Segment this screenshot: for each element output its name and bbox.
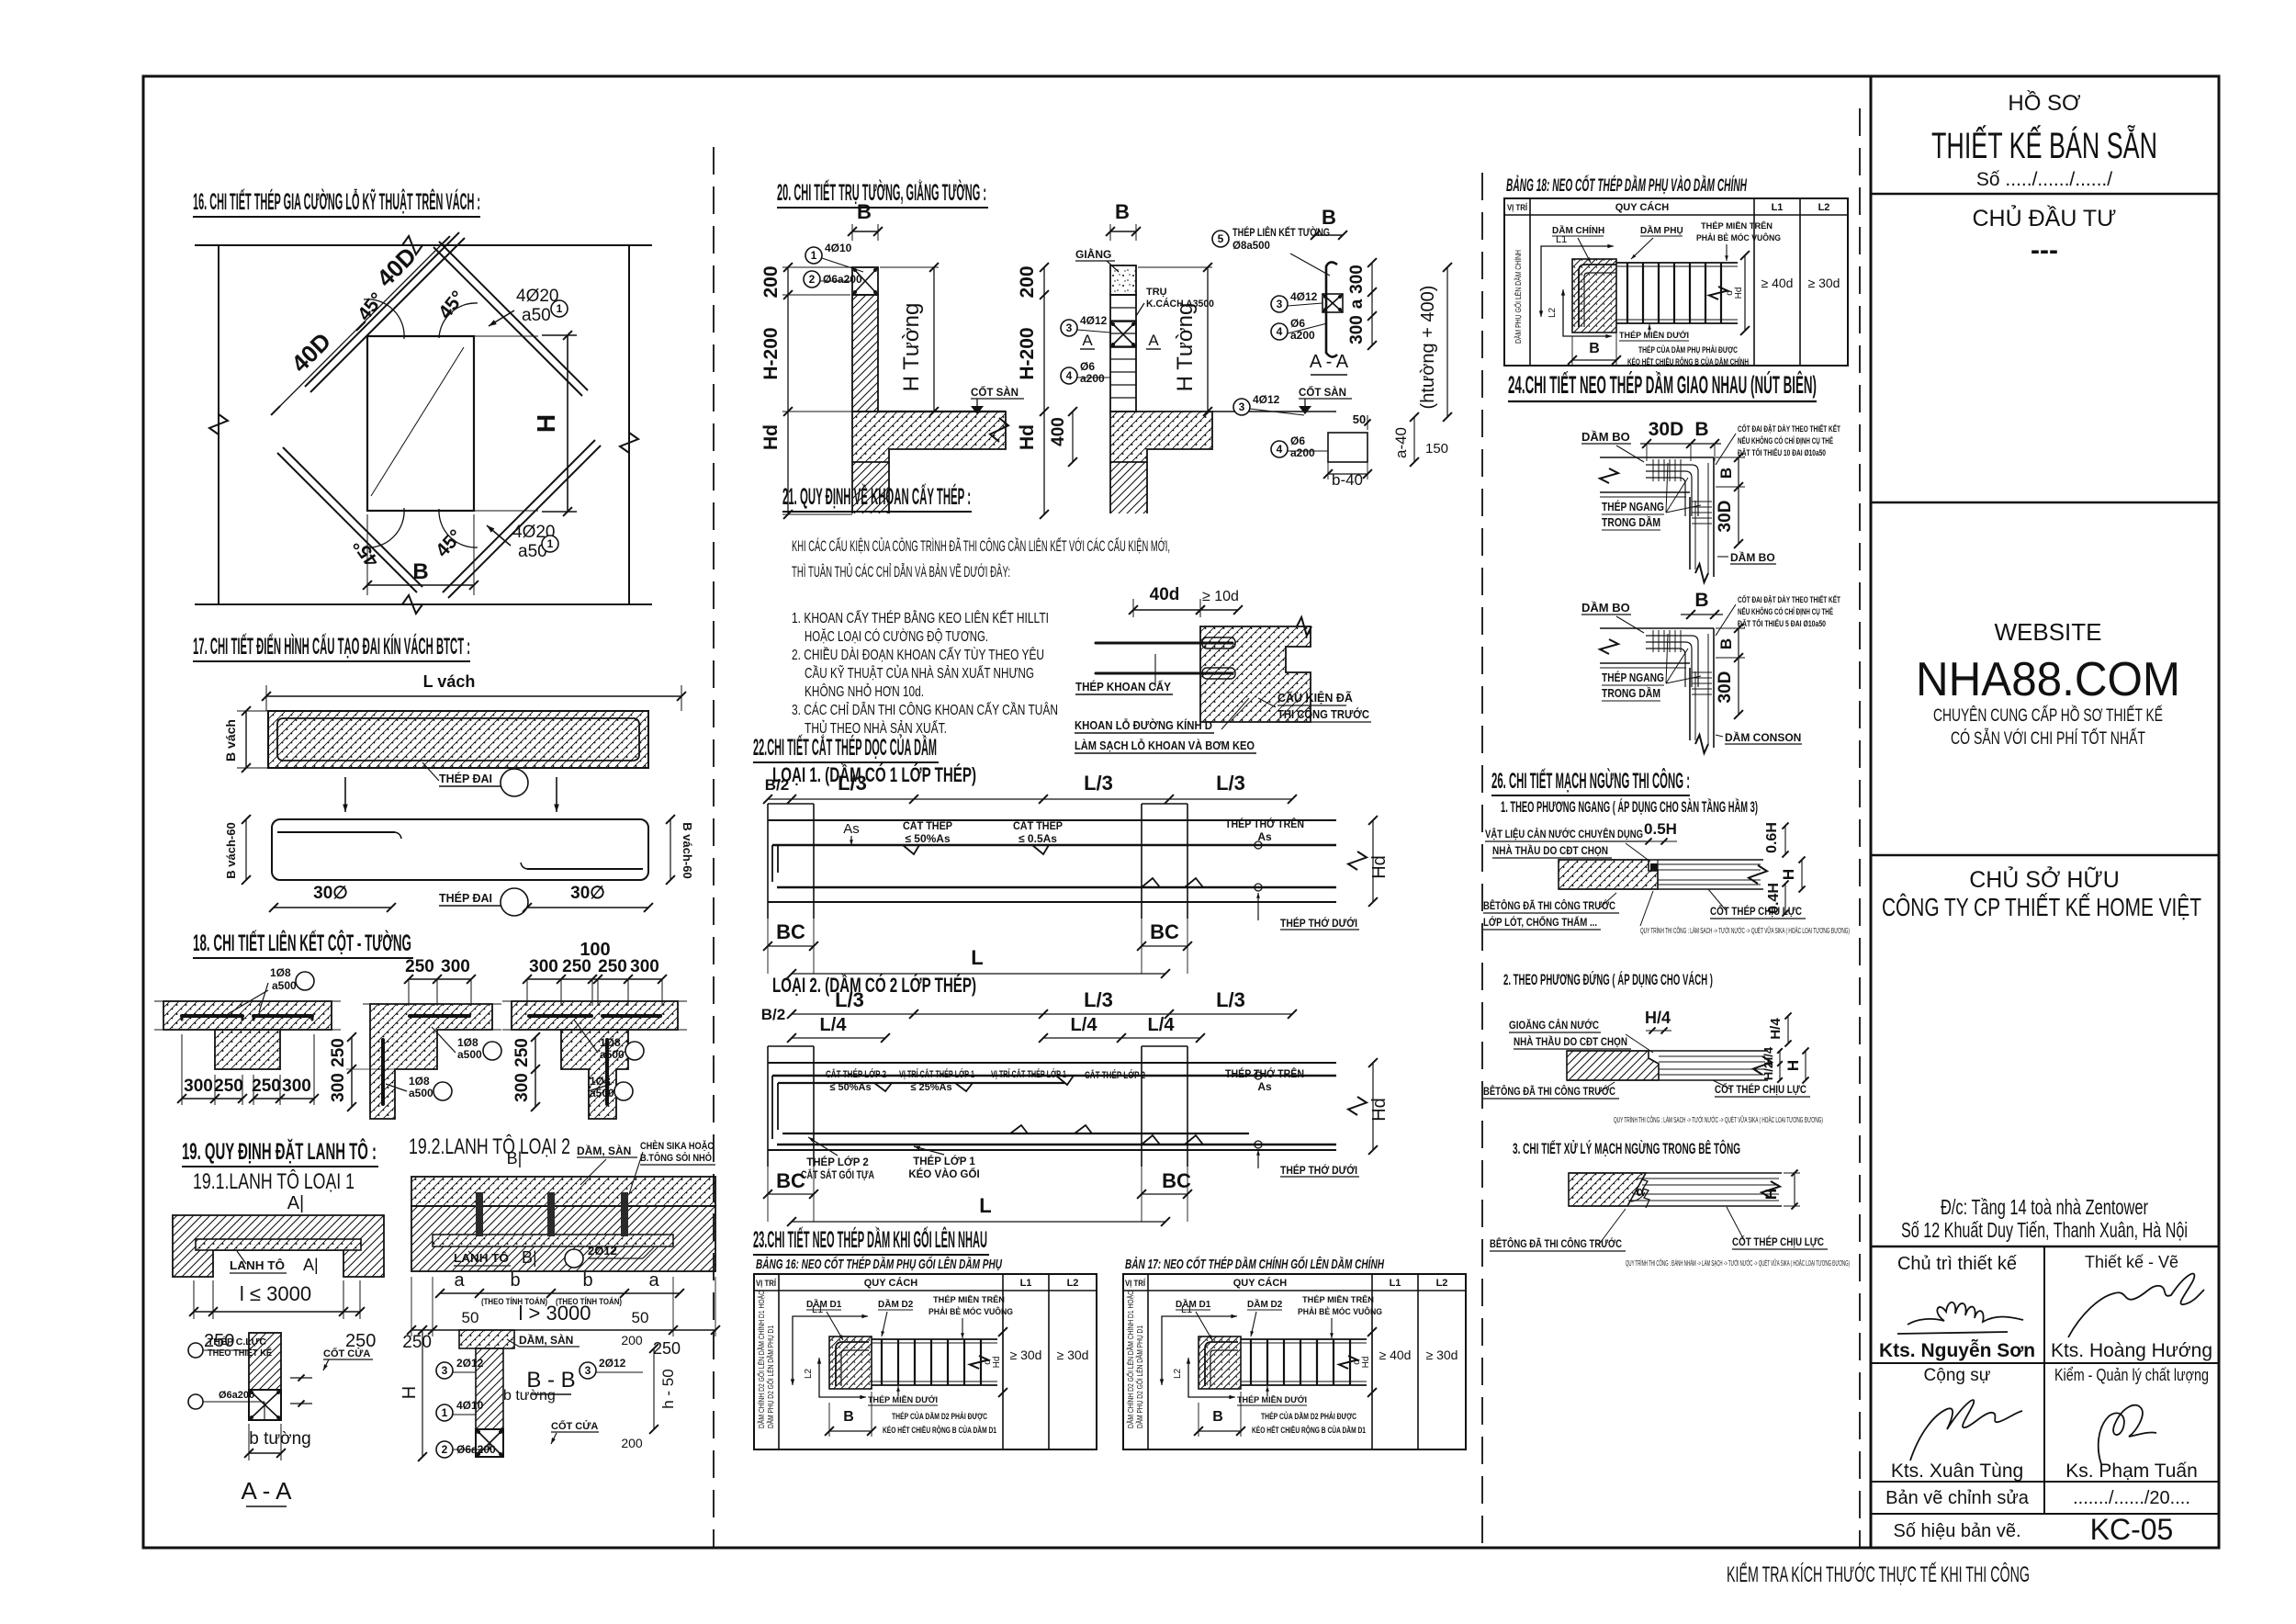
- svg-text:a500: a500: [600, 1048, 625, 1061]
- svg-text:A|: A|: [287, 1193, 305, 1213]
- svg-text:BC: BC: [1162, 1169, 1191, 1192]
- svg-text:200: 200: [1017, 265, 1038, 298]
- svg-text:250: 250: [405, 957, 434, 976]
- svg-text:As: As: [1257, 1080, 1272, 1093]
- svg-text:20. CHI TIẾT TRỤ TƯỜNG, GIẰNG: 20. CHI TIẾT TRỤ TƯỜNG, GIẰNG TƯỜNG :: [777, 178, 986, 206]
- fig26.2 wall section: [1567, 1051, 1659, 1080]
- fig19.2 wall with lintel: [411, 1206, 715, 1271]
- svg-text:b: b: [510, 1270, 520, 1291]
- svg-text:NHÀ THẦU DO CĐT CHỌN: NHÀ THẦU DO CĐT CHỌN: [1492, 843, 1608, 857]
- svg-text:19.2.LANH TÔ LOẠI 2: 19.2.LANH TÔ LOẠI 2: [409, 1133, 570, 1159]
- svg-text:250: 250: [329, 1038, 348, 1067]
- fig20b callout 3 4O12: [1061, 320, 1077, 336]
- svg-text:A: A: [1082, 332, 1093, 349]
- svg-text:L2: L2: [1818, 202, 1830, 213]
- svg-text:L vách: L vách: [423, 672, 476, 691]
- svg-text:L1: L1: [1556, 234, 1567, 245]
- svg-text:30D: 30D: [1649, 419, 1684, 440]
- svg-text:1Ø8: 1Ø8: [600, 1036, 621, 1049]
- svg-text:50: 50: [632, 1309, 649, 1326]
- svg-text:B|: B|: [522, 1248, 537, 1267]
- title block row lines: [1871, 193, 2219, 196]
- svg-text:H: H: [1780, 869, 1797, 880]
- svg-text:B|: B|: [507, 1149, 523, 1167]
- svg-text:L/3: L/3: [1216, 988, 1245, 1011]
- svg-text:23.CHI TIẾT NEO THÉP DẦM KHI G: 23.CHI TIẾT NEO THÉP DẦM KHI GỐI LÊN NHA…: [753, 1225, 987, 1253]
- svg-text:......./....../20....: ......./....../20....: [2073, 1488, 2190, 1508]
- svg-text:300: 300: [1347, 315, 1367, 344]
- svg-text:BÊTÔNG ĐÃ THI CÔNG TRƯỚC: BÊTÔNG ĐÃ THI CÔNG TRƯỚC: [1490, 1236, 1622, 1250]
- svg-text:50: 50: [462, 1309, 479, 1326]
- svg-text:40d: 40d: [1150, 585, 1180, 604]
- svg-text:H-200: H-200: [760, 327, 782, 379]
- svg-text:HỒ SƠ: HỒ SƠ: [2008, 90, 2081, 116]
- fig18b rebar bars: [410, 1014, 469, 1018]
- svg-text:B: B: [843, 1409, 854, 1425]
- svg-text:THÉP MIỀN TRÊN: THÉP MIỀN TRÊN: [1701, 220, 1773, 231]
- svg-text:19.1.LANH TÔ LOẠI 1: 19.1.LANH TÔ LOẠI 1: [193, 1168, 355, 1194]
- svg-text:17. CHI TIẾT ĐIỂN HÌNH CẤU TẠO: 17. CHI TIẾT ĐIỂN HÌNH CẤU TẠO ĐAI KÍN V…: [193, 633, 470, 660]
- svg-text:250: 250: [653, 1339, 681, 1358]
- svg-text:NHA88.COM: NHA88.COM: [1916, 653, 2180, 706]
- table outline: [1123, 1274, 1466, 1449]
- svg-text:a200: a200: [1290, 446, 1315, 459]
- svg-text:QUY TRÌNH THI CÔNG : ĐÁNH NHÁM: QUY TRÌNH THI CÔNG : ĐÁNH NHÁM -> LÀM SẠ…: [1626, 1258, 1850, 1268]
- svg-text:H: H: [1784, 1060, 1802, 1071]
- svg-text:1Ø8: 1Ø8: [270, 966, 291, 979]
- svg-text:Kiểm - Quản lý chất lượng: Kiểm - Quản lý chất lượng: [2054, 1366, 2209, 1384]
- svg-text:Bản vẽ chỉnh sửa: Bản vẽ chỉnh sửa: [1885, 1488, 2030, 1508]
- fig18c wall below: [561, 1030, 628, 1119]
- svg-text:HOẶC LOẠI CÓ CƯỜNG ĐỘ TƯƠNG.: HOẶC LOẠI CÓ CƯỜNG ĐỘ TƯƠNG.: [805, 627, 988, 645]
- svg-text:200: 200: [621, 1436, 643, 1450]
- svg-text:BẢN 17: NEO CỐT THÉP DẦM CHÍNH: BẢN 17: NEO CỐT THÉP DẦM CHÍNH GỐI LÊN D…: [1125, 1256, 1385, 1272]
- svg-text:CẤU KIỆN ĐÃ: CẤU KIỆN ĐÃ: [1277, 691, 1353, 705]
- svg-text:3: 3: [442, 1364, 448, 1377]
- svg-text:THI CÔNG TRƯỚC: THI CÔNG TRƯỚC: [1277, 707, 1369, 721]
- svg-text:KHOAN LỖ ĐƯỜNG KÍNH D: KHOAN LỖ ĐƯỜNG KÍNH D: [1075, 718, 1212, 732]
- svg-text:2Ø12: 2Ø12: [599, 1357, 626, 1370]
- beam1 top rebar: [772, 844, 1336, 846]
- fig20b callout 4 O6 a200: [1061, 367, 1077, 384]
- fig24 corner rebar hooks: [1646, 636, 1698, 687]
- svg-text:L1: L1: [812, 1304, 823, 1315]
- svg-text:CẮT THÉP LỚP 2: CẮT THÉP LỚP 2: [826, 1068, 886, 1080]
- svg-text:VỊ TRÍ: VỊ TRÍ: [756, 1279, 776, 1289]
- svg-text:H: H: [532, 414, 560, 433]
- svg-text:A|: A|: [303, 1256, 319, 1274]
- svg-text:a500: a500: [409, 1087, 433, 1100]
- svg-text:BẢNG 18: NEO CỐT THÉP DẦM PHỤ: BẢNG 18: NEO CỐT THÉP DẦM PHỤ VÀO DẦM CH…: [1506, 175, 1748, 196]
- beam2 top rebar layers: [772, 1075, 1336, 1077]
- svg-text:1: 1: [557, 302, 563, 315]
- svg-text:B: B: [412, 559, 428, 584]
- svg-text:VỊ TRÍ CẮT THÉP LỚP 1: VỊ TRÍ CẮT THÉP LỚP 1: [991, 1068, 1066, 1080]
- svg-text:B.TÔNG SỎI NHỎ: B.TÔNG SỎI NHỎ: [640, 1152, 712, 1164]
- table L1 bent leader: [1162, 1316, 1236, 1384]
- svg-text:Hd: Hd: [1361, 1357, 1371, 1369]
- svg-text:A - A: A - A: [242, 1477, 293, 1505]
- signature 4 squiggle: [2099, 1405, 2156, 1464]
- svg-text:CỐT SÀN: CỐT SÀN: [971, 386, 1019, 399]
- svg-text:KÉO VÀO GỐI: KÉO VÀO GỐI: [908, 1167, 979, 1180]
- svg-text:250: 250: [214, 1077, 243, 1096]
- svg-text:200: 200: [621, 1333, 643, 1348]
- svg-text:VẬT LIỆU CẢN NƯỚC CHUYÊN DỤNG: VẬT LIỆU CẢN NƯỚC CHUYÊN DỤNG: [1485, 827, 1643, 840]
- fig20c small rect detail: [1328, 433, 1367, 462]
- svg-text:3: 3: [1066, 321, 1073, 334]
- fig16 wall bottom edge: [195, 603, 652, 605]
- svg-text:CÓ SẴN VỚI CHI PHÍ TỐT NHẤT: CÓ SẴN VỚI CHI PHÍ TỐT NHẤT: [1951, 728, 2145, 749]
- svg-text:300: 300: [441, 957, 470, 976]
- beam2 outline: [768, 1062, 1336, 1064]
- svg-text:l ≤ 3000: l ≤ 3000: [240, 1282, 311, 1305]
- svg-text:THÉP MIỀN TRÊN: THÉP MIỀN TRÊN: [933, 1294, 1005, 1305]
- fig20c callout 5 thep lien ket tuong: [1212, 231, 1229, 247]
- svg-text:THÉP ĐAI: THÉP ĐAI: [439, 772, 492, 785]
- svg-text:B: B: [1115, 200, 1130, 223]
- fig16 wall top edge: [195, 244, 652, 246]
- svg-text:THÉP LIÊN KẾT TƯỜNG: THÉP LIÊN KẾT TƯỜNG: [1232, 227, 1330, 239]
- svg-text:a: a: [1347, 299, 1367, 309]
- table beam D2 side view: [872, 1338, 997, 1340]
- svg-text:b tường: b tường: [503, 1388, 556, 1404]
- svg-text:4Ø12: 4Ø12: [1080, 314, 1108, 327]
- fig20a callout 2 O6a200: [804, 271, 820, 288]
- svg-text:CỐT CỬA: CỐT CỬA: [323, 1347, 370, 1359]
- svg-text:L2: L2: [1173, 1368, 1183, 1379]
- separator dashed line right|titleblock: [1859, 108, 1861, 1547]
- table beam D2 side view: [1241, 1338, 1367, 1340]
- svg-text:Ø6: Ø6: [1290, 434, 1305, 447]
- svg-text:B: B: [1717, 638, 1735, 649]
- svg-text:H/4: H/4: [1645, 1009, 1671, 1027]
- svg-text:L1: L1: [1772, 202, 1784, 213]
- svg-text:B vách-60: B vách-60: [224, 822, 238, 878]
- fig26.1 new slab rebar: [1559, 859, 1763, 861]
- svg-text:BÊTÔNG ĐÃ THI CÔNG TRƯỚC: BÊTÔNG ĐÃ THI CÔNG TRƯỚC: [1483, 898, 1615, 912]
- title block border: [1871, 76, 2219, 1548]
- svg-text:250: 250: [402, 1333, 432, 1352]
- svg-text:THÉP LỚP 2: THÉP LỚP 2: [806, 1156, 869, 1168]
- fig20b wall ladder: [1110, 295, 1136, 412]
- svg-text:L/4: L/4: [1148, 1015, 1176, 1035]
- svg-text:DẦM PHỤ: DẦM PHỤ: [1640, 224, 1683, 236]
- svg-text:L1: L1: [1020, 1278, 1032, 1289]
- svg-text:300: 300: [329, 1073, 348, 1102]
- svg-text:CHỦ SỞ HỮU: CHỦ SỞ HỮU: [1969, 865, 2120, 893]
- signature 1 squiggle: [1908, 1303, 2023, 1325]
- svg-text:300: 300: [282, 1077, 311, 1096]
- svg-text:B: B: [1212, 1409, 1223, 1425]
- svg-text:DẦM CHÍNH D2 GỐI LÊN DẦM CHÍNH: DẦM CHÍNH D2 GỐI LÊN DẦM CHÍNH D1 HOẶC: [757, 1291, 766, 1428]
- table outline: [754, 1274, 1097, 1449]
- svg-text:KÉO HẾT CHIỀU RỘNG B CỦA DẦM D: KÉO HẾT CHIỀU RỘNG B CỦA DẦM D1: [1252, 1425, 1366, 1436]
- svg-text:QUY TRÌNH THI CÔNG : LÀM SẠCH: QUY TRÌNH THI CÔNG : LÀM SẠCH -> TƯỚI NƯ…: [1614, 1115, 1823, 1124]
- fig24 leader fan: [1666, 463, 1668, 513]
- fig16 opening rectangle: [367, 336, 474, 511]
- svg-text:Hd: Hd: [1369, 855, 1390, 879]
- separator dashed line left|middle: [713, 147, 715, 1547]
- svg-text:1: 1: [442, 1406, 448, 1419]
- svg-text:DẦM CONSON: DẦM CONSON: [1725, 730, 1801, 744]
- svg-text:L: L: [979, 1194, 991, 1217]
- svg-text:BÊTÔNG ĐÃ THI CÔNG TRƯỚC: BÊTÔNG ĐÃ THI CÔNG TRƯỚC: [1483, 1084, 1615, 1098]
- svg-text:2Ø12: 2Ø12: [456, 1357, 484, 1370]
- svg-text:2Ø12: 2Ø12: [588, 1244, 617, 1257]
- fig24 B 30D right dims: [1738, 628, 1739, 715]
- svg-text:GIOĂNG CẢN NƯỚC: GIOĂNG CẢN NƯỚC: [1509, 1018, 1599, 1032]
- svg-text:LANH TÔ: LANH TÔ: [454, 1251, 509, 1265]
- beam1 top dim row: [768, 798, 1292, 800]
- svg-text:Hd: Hd: [1017, 424, 1038, 450]
- table bang 18: [1504, 198, 1848, 366]
- table L1 bent leader: [793, 1316, 867, 1384]
- svg-text:CỐT CỬA: CỐT CỬA: [551, 1419, 598, 1432]
- svg-text:THÉP MIỀN DƯỚI: THÉP MIỀN DƯỚI: [868, 1394, 938, 1405]
- beam1 cut marks: [903, 845, 919, 854]
- svg-text:Ks. Phạm Tuấn: Ks. Phạm Tuấn: [2065, 1460, 2198, 1482]
- svg-text:≥ 30d: ≥ 30d: [1426, 1348, 1458, 1362]
- table L2 bent leader: [1188, 1359, 1234, 1397]
- svg-text:L/3: L/3: [1084, 988, 1113, 1011]
- svg-text:THÉP MIỀN DƯỚI: THÉP MIỀN DƯỚI: [1619, 330, 1689, 341]
- fig20a wall hatched: [852, 295, 878, 412]
- fig18a rebar bars: [182, 1014, 242, 1018]
- table beam end break: [1339, 1356, 1357, 1369]
- fig18a slab: [163, 1001, 332, 1030]
- svg-text:B vách-60: B vách-60: [681, 822, 694, 878]
- svg-text:21. QUY ĐỊNH VỀ KHOAN CẤY THÉP: 21. QUY ĐỊNH VỀ KHOAN CẤY THÉP :: [782, 483, 971, 510]
- svg-text:NHÀ THẦU DO CĐT CHỌN: NHÀ THẦU DO CĐT CHỌN: [1514, 1034, 1627, 1048]
- svg-text:THÉP KHOAN CẤY: THÉP KHOAN CẤY: [1075, 680, 1172, 694]
- svg-text:Số ...../....../....../: Số ...../....../....../: [1976, 169, 2112, 190]
- svg-text:4: 4: [1277, 325, 1283, 338]
- svg-text:4Ø10: 4Ø10: [825, 242, 852, 254]
- svg-text:THÌ TUÂN THỦ CÁC CHỈ DẪN VÀ BẢ: THÌ TUÂN THỦ CÁC CHỈ DẪN VÀ BẢN VẼ DƯỚI …: [792, 563, 1010, 581]
- svg-text:4Ø12: 4Ø12: [1290, 290, 1318, 303]
- svg-text:CẮT THÉP: CẮT THÉP: [1013, 818, 1063, 832]
- svg-text:300: 300: [630, 957, 659, 976]
- svg-text:30∅: 30∅: [313, 884, 348, 903]
- fig26.3 old concrete with slant: [1569, 1173, 1646, 1206]
- title block signature column divider: [2043, 1246, 2045, 1514]
- svg-text:DẦM, SÀN: DẦM, SÀN: [577, 1144, 631, 1157]
- svg-text:L/3: L/3: [1216, 772, 1245, 795]
- svg-text:30D: 30D: [1716, 671, 1735, 704]
- svg-text:250: 250: [252, 1077, 281, 1096]
- svg-text:LOẠI 1. (DẦM CÓ 1 LỚP THÉP): LOẠI 1. (DẦM CÓ 1 LỚP THÉP): [772, 763, 976, 786]
- fig21 anchored rebar 1: [1096, 642, 1232, 645]
- beam2 cut marks: [874, 1083, 892, 1091]
- svg-text:h - 50: h - 50: [659, 1369, 677, 1408]
- svg-text:a50: a50: [522, 306, 551, 325]
- svg-text:BC: BC: [776, 920, 805, 943]
- svg-text:B: B: [1694, 419, 1708, 440]
- fig20c vertical bar with hooks: [1326, 262, 1337, 356]
- svg-text:≤ 25%As: ≤ 25%As: [910, 1082, 951, 1093]
- svg-text:3: 3: [1239, 400, 1245, 413]
- svg-text:0.5H: 0.5H: [1644, 820, 1677, 838]
- fig19.2 sika plugs: [476, 1192, 483, 1236]
- fig20a floor slab: [852, 412, 1006, 462]
- fig19.1 section A-A column: [249, 1333, 281, 1390]
- svg-text:400: 400: [1049, 417, 1068, 446]
- svg-text:H: H: [1762, 1189, 1780, 1200]
- svg-text:B: B: [1694, 590, 1708, 611]
- svg-text:VỊ TRÍ: VỊ TRÍ: [1125, 1279, 1145, 1289]
- fig16 wall right edge: [628, 245, 630, 604]
- svg-text:150: 150: [1425, 441, 1448, 457]
- svg-text:Ø8a500: Ø8a500: [1232, 241, 1270, 252]
- svg-text:16. CHI TIẾT THÉP GIA CƯỜNG LỖ: 16. CHI TIẾT THÉP GIA CƯỜNG LỖ KỸ THUẬT …: [193, 187, 480, 215]
- svg-text:Kts. Xuân Tùng: Kts. Xuân Tùng: [1891, 1460, 2023, 1482]
- svg-text:QUY CÁCH: QUY CÁCH: [864, 1277, 918, 1289]
- svg-text:PHẢI BẺ MÓC VUÔNG: PHẢI BẺ MÓC VUÔNG: [1298, 1306, 1382, 1317]
- fig16 diagonal rebar lower-right: [443, 440, 595, 592]
- fig16 B dimension: [367, 584, 474, 586]
- svg-text:Chủ trì thiết kế: Chủ trì thiết kế: [1897, 1254, 2017, 1274]
- svg-text:Hd: Hd: [992, 1357, 1002, 1369]
- svg-text:0.6H: 0.6H: [1764, 822, 1780, 853]
- svg-text:DẦM CHÍNH D2 GỐI LÊN DẦM CHÍNH: DẦM CHÍNH D2 GỐI LÊN DẦM CHÍNH D1 HOẶC: [1126, 1291, 1135, 1428]
- signature 3 squiggle: [1910, 1400, 2022, 1460]
- svg-text:H Tường: H Tường: [1173, 303, 1198, 392]
- svg-text:CỐT ĐAI ĐẶT DÀY THEO THIẾT KẾT: CỐT ĐAI ĐẶT DÀY THEO THIẾT KẾT: [1738, 594, 1840, 605]
- svg-text:Ø6a200: Ø6a200: [219, 1390, 254, 1401]
- svg-text:BC: BC: [1150, 920, 1179, 943]
- svg-text:WEBSITE: WEBSITE: [1994, 618, 2101, 646]
- svg-text:Hd: Hd: [1734, 288, 1744, 299]
- svg-text:THÉP THỚ DƯỚI: THÉP THỚ DƯỚI: [1280, 916, 1357, 930]
- svg-text:Thiết kế - Vẽ: Thiết kế - Vẽ: [2085, 1253, 2178, 1271]
- fig19.1 wall with lintel: [173, 1215, 384, 1277]
- svg-text:L2: L2: [1548, 307, 1558, 318]
- svg-text:≥ 30d: ≥ 30d: [1010, 1348, 1042, 1362]
- svg-text:50: 50: [1353, 412, 1366, 426]
- svg-text:a500: a500: [457, 1048, 482, 1061]
- svg-text:L2: L2: [804, 1368, 814, 1379]
- svg-text:THÉP LỚP 1: THÉP LỚP 1: [913, 1156, 975, 1167]
- svg-text:Ø6a200: Ø6a200: [823, 273, 862, 286]
- svg-text:(htường + 400): (htường + 400): [1418, 286, 1438, 410]
- svg-text:DẦM PHỤ D2 GỐI LÊN DẦM PHỤ D1: DẦM PHỤ D2 GỐI LÊN DẦM PHỤ D1: [1135, 1325, 1144, 1428]
- svg-text:THÉP NGANG: THÉP NGANG: [1602, 500, 1664, 513]
- svg-text:Số hiệu bản vẽ.: Số hiệu bản vẽ.: [1894, 1521, 2021, 1541]
- svg-text:300: 300: [512, 1073, 532, 1102]
- svg-text:5: 5: [1218, 232, 1224, 245]
- svg-text:2. THEO PHƯƠNG ĐỨNG ( ÁP DỤNG: 2. THEO PHƯƠNG ĐỨNG ( ÁP DỤNG CHO VÁCH ): [1503, 971, 1713, 988]
- svg-text:TRONG DẦM: TRONG DẦM: [1602, 686, 1660, 700]
- svg-text:B: B: [1322, 206, 1336, 229]
- svg-text:1: 1: [547, 537, 554, 550]
- fig17 arrows down: [344, 777, 346, 812]
- svg-text:2: 2: [809, 273, 816, 286]
- svg-text:KIỂM TRA KÍCH THƯỚC THỰC TẾ KH: KIỂM TRA KÍCH THƯỚC THỰC TẾ KHI THI CÔNG: [1727, 1562, 2030, 1587]
- svg-text:THÉP MIỀN TRÊN: THÉP MIỀN TRÊN: [1302, 1294, 1374, 1305]
- svg-text:NẾU KHÔNG CÓ CHỈ ĐỊNH CỤ THỂ: NẾU KHÔNG CÓ CHỈ ĐỊNH CỤ THỂ: [1738, 435, 1833, 446]
- fig18c rebar bars: [529, 1014, 591, 1018]
- svg-text:CỐT THÉP CHỊU LỰC: CỐT THÉP CHỊU LỰC: [1715, 1082, 1806, 1096]
- fig20c callout 4: [1271, 323, 1288, 340]
- svg-text:22.CHI TIẾT CẮT THÉP DỌC CỦA D: 22.CHI TIẾT CẮT THÉP DỌC CỦA DẦM: [753, 733, 937, 761]
- svg-text:30D: 30D: [1716, 501, 1735, 533]
- fig16 40D dimension line: [276, 241, 445, 411]
- fig19.2 slab band: [411, 1177, 715, 1206]
- svg-text:3: 3: [1277, 298, 1283, 310]
- svg-text:L/4: L/4: [820, 1015, 848, 1035]
- svg-text:CHÈN SIKA HOẶC: CHÈN SIKA HOẶC: [640, 1140, 714, 1152]
- svg-text:B/2: B/2: [765, 776, 789, 794]
- svg-text:TRỤ: TRỤ: [1146, 287, 1167, 298]
- fig20c callout 3 4O12 lower: [1233, 399, 1250, 415]
- fig16 diagonal rebar upper-right: [439, 242, 588, 390]
- svg-text:Ø6: Ø6: [1290, 317, 1305, 330]
- svg-text:DẦM D2: DẦM D2: [1247, 1298, 1283, 1310]
- svg-text:4Ø12: 4Ø12: [1253, 393, 1280, 406]
- svg-text:CHUYÊN CUNG CẤP HỒ SƠ THIẾT KẾ: CHUYÊN CUNG CẤP HỒ SƠ THIẾT KẾ: [1933, 705, 2163, 726]
- svg-text:CỐT SÀN: CỐT SÀN: [1299, 386, 1346, 399]
- fig24 horizontal beam lines: [1600, 457, 1714, 458]
- svg-text:GIẰNG: GIẰNG: [1075, 247, 1111, 261]
- svg-text:≥ 30d: ≥ 30d: [1808, 276, 1840, 290]
- svg-text:THÉP THỚ TRÊN: THÉP THỚ TRÊN: [1225, 817, 1304, 830]
- svg-text:THEO THIẾT KẾ: THEO THIẾT KẾ: [208, 1347, 272, 1359]
- svg-text:L: L: [971, 946, 983, 969]
- svg-text:250: 250: [512, 1038, 532, 1067]
- svg-text:B vách: B vách: [223, 719, 238, 761]
- svg-text:KHÔNG NHỎ HƠN 10d.: KHÔNG NHỎ HƠN 10d.: [805, 682, 924, 700]
- svg-text:DẦM BO: DẦM BO: [1581, 430, 1630, 444]
- signature 2 squiggle: [2068, 1274, 2204, 1337]
- svg-text:a500: a500: [590, 1087, 614, 1100]
- svg-text:Hd: Hd: [1369, 1098, 1390, 1122]
- fig17 tie bars open shape: [272, 819, 648, 880]
- svg-text:NẾU KHÔNG CÓ CHỈ ĐỊNH CỤ THỂ: NẾU KHÔNG CÓ CHỈ ĐỊNH CỤ THỂ: [1738, 606, 1833, 617]
- svg-text:a500: a500: [272, 979, 297, 992]
- svg-text:3. CÁC CHỈ DẪN THI CÔNG KHOAN: 3. CÁC CHỈ DẪN THI CÔNG KHOAN CẤY CẦN TU…: [792, 701, 1058, 718]
- svg-text:QUY CÁCH: QUY CÁCH: [1233, 1277, 1288, 1289]
- svg-text:1Ø8: 1Ø8: [457, 1036, 478, 1049]
- table18 beam D1 cross section: [1572, 259, 1616, 333]
- svg-text:QUY TRÌNH THI CÔNG : LÀM SẠCH: QUY TRÌNH THI CÔNG : LÀM SẠCH -> TƯỚI NƯ…: [1640, 926, 1850, 935]
- svg-text:CẮT SÁT GỐI TỰA: CẮT SÁT GỐI TỰA: [801, 1168, 874, 1181]
- svg-text:≥ 40d: ≥ 40d: [1761, 276, 1794, 290]
- fig24 horizontal beam lines: [1600, 627, 1714, 629]
- svg-text:L/4: L/4: [1071, 1015, 1098, 1035]
- svg-text:200: 200: [760, 265, 782, 298]
- svg-text:DẦM D2: DẦM D2: [878, 1298, 914, 1310]
- svg-text:THÉP CỦA DẦM D2 PHẢI ĐƯỢC: THÉP CỦA DẦM D2 PHẢI ĐƯỢC: [1261, 1411, 1356, 1422]
- svg-text:THÉP NGANG: THÉP NGANG: [1602, 671, 1664, 684]
- beam1 Hd dim: [1372, 820, 1374, 902]
- svg-text:≤ 0.5As: ≤ 0.5As: [1019, 832, 1057, 845]
- beam2 bottom rebar layers: [782, 1133, 1249, 1134]
- svg-text:VỊ TRÍ: VỊ TRÍ: [1507, 203, 1527, 213]
- fig18b wall corner shape: [370, 1004, 492, 1119]
- svg-text:THÉP MIỀN DƯỚI: THÉP MIỀN DƯỚI: [1237, 1394, 1307, 1405]
- beam1 outline: [768, 819, 1336, 821]
- svg-text:l > 3000: l > 3000: [519, 1302, 591, 1325]
- svg-text:LỚP LÓT, CHỐNG THẤM ...: LỚP LÓT, CHỐNG THẤM ...: [1483, 915, 1597, 929]
- fig24 vertical beam lines: [1689, 497, 1691, 570]
- fig16 wall left edge: [218, 245, 219, 604]
- svg-text:250: 250: [598, 957, 627, 976]
- svg-text:L2: L2: [1067, 1278, 1079, 1289]
- svg-text:---: ---: [2031, 235, 2058, 265]
- svg-text:BC: BC: [776, 1169, 805, 1192]
- svg-text:ĐẶT TỐI THIỂU 10 ĐAI Ø10a50: ĐẶT TỐI THIỂU 10 ĐAI Ø10a50: [1738, 447, 1826, 458]
